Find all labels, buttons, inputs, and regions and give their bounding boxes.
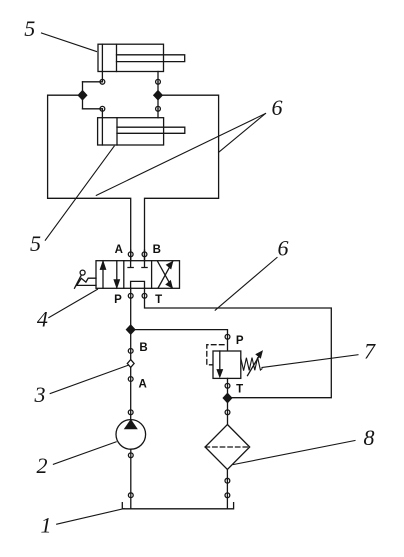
svg-text:T: T	[236, 383, 243, 395]
lever arm	[75, 275, 82, 288]
valve right section cross line 2	[158, 261, 173, 288]
pump suction line	[130, 449, 132, 509]
valve right section arrowhead down-right	[166, 281, 172, 287]
relief valve port circle P	[225, 334, 230, 339]
svg-text:7: 7	[364, 339, 376, 364]
valve centre section blocked port A stub	[128, 261, 133, 268]
leader line 3	[50, 365, 128, 393]
cylinder 5 (top) rod	[117, 55, 185, 62]
joint circle below filter	[225, 478, 230, 483]
valve port circle T	[142, 293, 147, 298]
wire pipe B loop (valve B to right junction)	[145, 95, 219, 261]
leader line 6 lower	[215, 258, 277, 311]
cylinder 5 (bottom) left port stub	[101, 109, 103, 118]
svg-text:3: 3	[34, 382, 46, 407]
relief valve 7 internal arrowhead	[217, 370, 222, 377]
port circle bottom cylinder left	[100, 106, 105, 111]
relief valve 7 adjustment arrow	[248, 354, 261, 376]
pump supply line P	[130, 288, 132, 419]
valve left section down-flow line	[116, 261, 118, 288]
port circle top cylinder left	[100, 79, 105, 84]
valve centre section blocked port B stub	[142, 261, 147, 268]
leader line 4	[49, 289, 98, 317]
svg-text:A: A	[138, 379, 146, 391]
svg-text:5: 5	[30, 231, 41, 256]
lever ball	[80, 270, 85, 275]
svg-text:6: 6	[278, 236, 289, 261]
valve port circle P	[128, 293, 133, 298]
cylinder 5 (bottom) piston line right	[116, 118, 118, 145]
valve port stub A	[130, 250, 132, 261]
coupling 3 (open diamond)	[127, 360, 134, 368]
relief valve 7 spring	[241, 357, 262, 370]
port circle bottom cylinder right	[156, 106, 161, 111]
cylinder 5 (top) piston line left	[101, 44, 103, 71]
svg-text:P: P	[114, 294, 122, 306]
joint circle at tank (pump side)	[128, 493, 133, 498]
cylinder 5 (top) right port stub	[157, 72, 159, 82]
leader line 5 top	[42, 33, 97, 52]
port circle top cylinder right	[156, 79, 161, 84]
filter 8 element dashed	[205, 446, 250, 448]
valve left section up arrowhead	[101, 262, 106, 269]
leader line 7	[262, 355, 358, 368]
valve port circle A	[128, 252, 133, 257]
junction (left, filled)	[78, 91, 86, 100]
cylinder 5 (bottom) body	[98, 118, 164, 145]
joint circle above pump	[128, 410, 133, 415]
valve right section cross line 1	[158, 261, 173, 288]
relief valve port circle T	[225, 383, 230, 388]
valve centre section P-T bridge	[131, 281, 145, 288]
svg-text:P: P	[236, 335, 244, 347]
svg-text:T: T	[155, 294, 162, 306]
valve port circle B	[142, 252, 147, 257]
valve U1 body	[96, 261, 180, 289]
svg-text:B: B	[153, 244, 161, 256]
relief valve 7 body	[213, 351, 241, 378]
T return line loop	[145, 288, 332, 397]
leader line 2	[53, 442, 116, 465]
svg-text:A: A	[115, 244, 123, 256]
valve left section down arrowhead	[114, 280, 119, 287]
junction below relief (filled)	[223, 394, 231, 403]
svg-text:1: 1	[41, 512, 52, 537]
relief valve T stub	[227, 378, 229, 424]
cylinder 5 (top) left port stub	[101, 72, 103, 82]
cylinder 5 (bottom) rod	[117, 127, 185, 133]
leader line 6 short	[219, 114, 266, 153]
wire left branch to bottom cylinder port	[83, 108, 103, 110]
leader line 6 long	[96, 114, 265, 196]
cylinder 5 (bottom) piston line left	[101, 118, 103, 145]
tank 1	[122, 503, 233, 509]
wire left branch vertical	[82, 82, 84, 109]
cylinder 5 (top) piston line right	[116, 44, 118, 71]
pump 2 circle	[116, 420, 146, 450]
branch line to relief valve	[131, 330, 228, 351]
valve right section arrowhead up-right	[167, 262, 173, 268]
svg-text:B: B	[139, 342, 147, 354]
svg-text:4: 4	[37, 307, 48, 332]
svg-text:5: 5	[24, 16, 35, 41]
filter return line	[226, 470, 228, 509]
relief valve 7 internal flow line	[219, 351, 221, 372]
svg-text:8: 8	[364, 425, 375, 450]
leader line 1	[57, 509, 124, 525]
valve divider right	[151, 261, 153, 289]
valve port stub B	[144, 250, 146, 261]
junction (right, filled)	[154, 91, 162, 100]
joint circle below pump	[128, 453, 133, 458]
filter 8 diamond	[205, 425, 250, 470]
wire left branch to top cylinder port	[83, 81, 103, 83]
joint circle at tank (filter side)	[225, 493, 230, 498]
branch junction on P line (filled)	[127, 325, 135, 334]
lever operator of valve 4	[77, 278, 96, 285]
relief valve 7 pilot dashed line	[207, 345, 224, 365]
svg-text:6: 6	[272, 95, 283, 120]
cylinder 5 (bottom) right port stub	[157, 109, 159, 118]
pump 2 triangle	[125, 420, 137, 428]
valve left section up-flow line	[102, 262, 104, 289]
leader line 8	[234, 441, 356, 465]
joint circle above filter	[225, 410, 230, 415]
wire pipe A loop (valve A to left junction)	[48, 95, 131, 261]
leader line 5 bottom	[45, 146, 114, 240]
wire right branch vertical	[157, 82, 159, 109]
svg-text:2: 2	[37, 453, 48, 478]
joint circle A on P line	[128, 377, 133, 382]
joint circle B on P line	[128, 349, 133, 354]
valve divider left	[123, 261, 125, 289]
cylinder 5 (top) body	[98, 44, 164, 71]
